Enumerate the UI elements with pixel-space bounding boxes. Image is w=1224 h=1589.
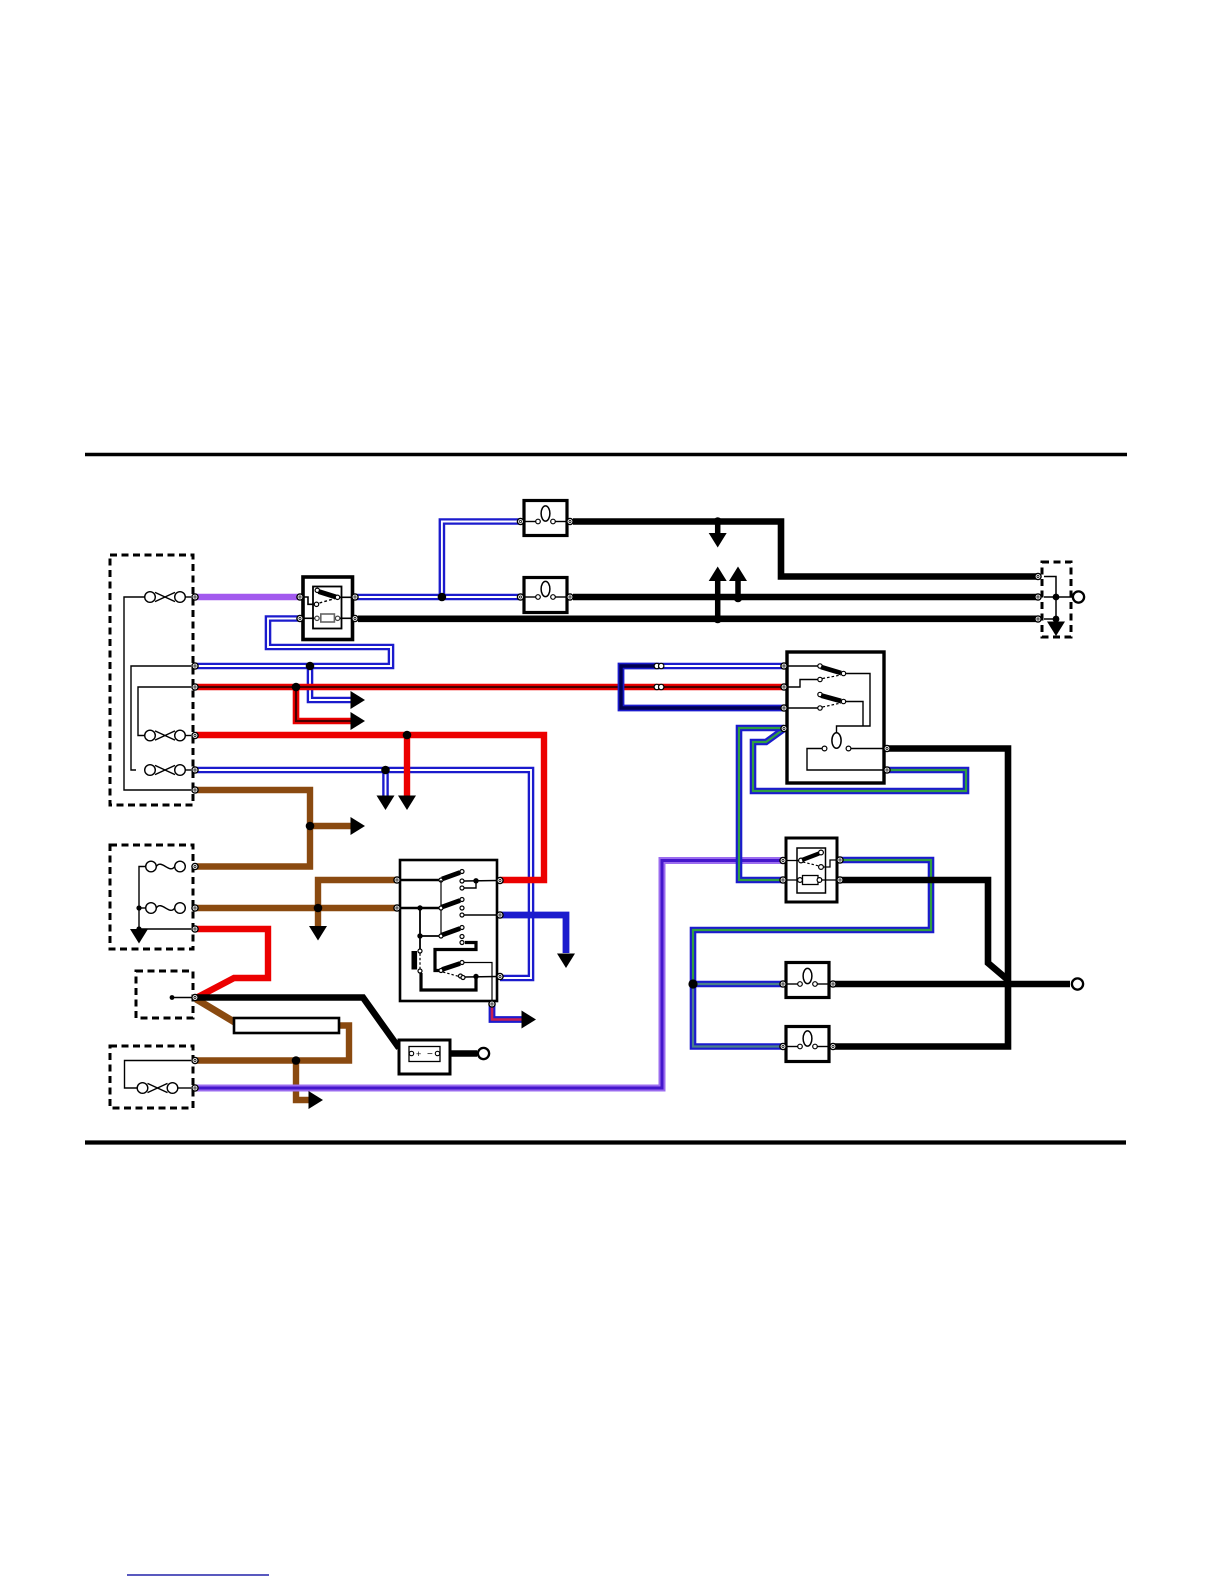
svg-text:+: + [416,1049,421,1059]
svg-text:−: − [427,1049,433,1060]
